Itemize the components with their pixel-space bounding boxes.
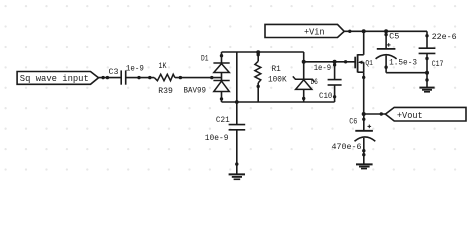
capacitor C6 plus plate bbox=[355, 130, 373, 132]
pin dot D1 bottom bbox=[220, 97, 223, 100]
pin dot C17 top bbox=[425, 34, 428, 37]
capacitor C3 bbox=[120, 70, 122, 84]
svg-text:D6: D6 bbox=[311, 77, 318, 87]
wire +Vin rail bbox=[344, 30, 427, 32]
svg-text:C21: C21 bbox=[216, 115, 230, 125]
transistor Q1 channel bar bbox=[357, 54, 359, 72]
wire C10 top bbox=[334, 62, 336, 80]
transistor Q1 drain stub bbox=[358, 54, 364, 56]
capacitor C17 bbox=[419, 47, 436, 49]
capacitor C5 plus sign bbox=[387, 44, 391, 46]
zener D6 cathode bar bbox=[293, 76, 315, 82]
net flag: Sq wave input bbox=[17, 72, 98, 85]
svg-text:100K: 100K bbox=[268, 75, 287, 85]
diode D1 lower triangle bbox=[214, 81, 230, 91]
pin dot R39 right bbox=[179, 76, 182, 79]
wire top rail bbox=[222, 51, 304, 53]
pin dot Q1 source bbox=[362, 76, 365, 79]
svg-text:Sq wave input: Sq wave input bbox=[20, 73, 89, 84]
capacitor C5 curved plate bbox=[376, 55, 397, 59]
wire D6 branch bottom bbox=[303, 89, 305, 102]
svg-text:470e-6: 470e-6 bbox=[332, 142, 362, 152]
svg-text:1e-9: 1e-9 bbox=[314, 63, 331, 73]
transistor Q1 body arrow bbox=[359, 61, 364, 63]
zener D6 triangle bbox=[296, 80, 312, 90]
diode D1 upper cathode bar bbox=[213, 62, 229, 64]
wire D1 branch bottom bbox=[221, 92, 223, 103]
wire input to C3 bbox=[99, 77, 122, 79]
transistor Q1 gate bar bbox=[354, 57, 356, 69]
pin dot C21 junction bbox=[235, 162, 238, 165]
decorative grid bbox=[4, 5, 456, 171]
wire C21 bottom bbox=[236, 130, 238, 174]
capacitor C21 bbox=[229, 124, 246, 126]
wire bottom rail bbox=[222, 101, 335, 103]
pin dot C10 top bbox=[333, 63, 336, 66]
svg-text:10e-9: 10e-9 bbox=[205, 133, 229, 143]
junction dot C10 top bbox=[333, 60, 337, 64]
wire D1 mid segment bbox=[221, 73, 223, 81]
resistor R39 bbox=[154, 74, 175, 80]
wire C6 top bbox=[363, 114, 365, 131]
wire D6 branch top bbox=[303, 52, 305, 79]
pin dot C3 right bbox=[137, 76, 140, 79]
wire Q1 source to Vout bbox=[364, 113, 386, 115]
svg-text:22e-6: 22e-6 bbox=[432, 32, 457, 42]
wire gate net bbox=[304, 61, 355, 63]
wire C17 bottom bbox=[426, 53, 428, 87]
svg-text:C6: C6 bbox=[349, 117, 357, 127]
svg-text:R1: R1 bbox=[272, 64, 281, 74]
pin dot R39 left bbox=[148, 76, 151, 79]
diode D1 lower cathode bar bbox=[213, 80, 229, 82]
svg-text:C3: C3 bbox=[109, 67, 119, 77]
pin dot C3 left bbox=[106, 76, 109, 79]
ground C21 bbox=[229, 173, 245, 175]
wire C10 bottom bbox=[334, 85, 336, 102]
svg-text:+Vin: +Vin bbox=[304, 28, 325, 38]
diode D1 upper triangle bbox=[214, 64, 230, 73]
capacitor C6 curved plate bbox=[355, 137, 376, 141]
pin dot C5 bottom bbox=[384, 66, 387, 69]
ground C6 bbox=[356, 163, 373, 165]
svg-text:+Vout: +Vout bbox=[397, 111, 423, 121]
ground C17 bbox=[419, 87, 434, 89]
wire R39 to D1 mid node bbox=[175, 77, 222, 79]
pin dot D6 bottom bbox=[302, 97, 305, 100]
svg-text:C5: C5 bbox=[389, 31, 399, 41]
svg-text:D1: D1 bbox=[201, 54, 209, 64]
pin dot Q1 gate bbox=[344, 60, 347, 63]
svg-text:1.5e-3: 1.5e-3 bbox=[389, 58, 417, 68]
svg-text:1K: 1K bbox=[159, 61, 168, 71]
junction dot C5 at +Vin bbox=[384, 29, 388, 33]
svg-text:1e-9: 1e-9 bbox=[126, 64, 144, 74]
wire R1 top bbox=[257, 52, 259, 61]
svg-text:BAV99: BAV99 bbox=[184, 85, 207, 95]
svg-text:R39: R39 bbox=[158, 86, 173, 96]
wire C5 top bbox=[385, 31, 387, 49]
transistor Q1 source link bbox=[363, 62, 365, 72]
capacitor C6 plus sign bbox=[368, 125, 372, 127]
wire C21 top bbox=[236, 102, 238, 125]
pin dot C17 ground bbox=[425, 78, 428, 81]
pin dot C6 top bbox=[362, 118, 365, 121]
pin dot C6 bottom bbox=[362, 149, 365, 152]
pin dot C6 ground bbox=[362, 153, 365, 156]
wire C17 top bbox=[426, 31, 428, 48]
pin dot D1 top bbox=[220, 54, 223, 57]
net flag +Vin bbox=[265, 24, 344, 37]
wire C6 bottom bbox=[363, 138, 365, 164]
pin dot C17 bottom bbox=[425, 57, 428, 60]
wire C5 bottom bbox=[385, 56, 387, 73]
svg-text:C17: C17 bbox=[432, 59, 444, 69]
wire Q1 source down bbox=[363, 72, 365, 114]
pin dot R1 bottom bbox=[257, 85, 260, 88]
junction dot R1 top rail bbox=[256, 50, 260, 54]
pin dot R1 top bbox=[257, 53, 260, 56]
pin dot input flag bbox=[101, 76, 104, 79]
transistor Q1 source stub bbox=[358, 71, 364, 73]
net flag +Vout bbox=[385, 107, 466, 121]
pin dot C10 bottom bbox=[333, 95, 336, 98]
pin dot +Vin flag bbox=[348, 30, 351, 33]
wire Q1 drain bbox=[363, 31, 365, 55]
wire C5 to ground rail bbox=[386, 72, 427, 74]
wire vertical C21 riser bbox=[236, 52, 238, 102]
junction dot Q1 drain at +Vin bbox=[362, 29, 366, 33]
junction dot C17 ground rail bbox=[425, 71, 429, 75]
junction dot output node bbox=[362, 112, 366, 116]
junction dot riser bottom bbox=[235, 100, 239, 104]
pin dot D1 mid bbox=[210, 76, 213, 79]
resistor R1 bbox=[255, 61, 261, 83]
svg-text:C10: C10 bbox=[319, 91, 332, 101]
junction dot gate tap bbox=[302, 60, 306, 64]
pin dot C5 top bbox=[384, 33, 387, 36]
wire R1 bottom bbox=[257, 83, 259, 102]
pin dot Vout flag bbox=[380, 112, 383, 115]
svg-text:Q1: Q1 bbox=[365, 60, 373, 68]
wire D1 branch top bbox=[221, 52, 223, 63]
capacitor C10 bbox=[328, 79, 342, 81]
wire C3 to R39 bbox=[126, 77, 155, 79]
capacitor C5 plus plate bbox=[377, 48, 396, 50]
